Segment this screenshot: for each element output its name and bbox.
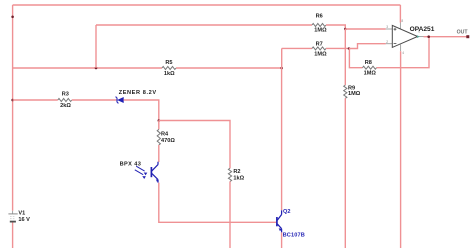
op-amp plus mark xyxy=(394,28,397,31)
wire R8 left lead xyxy=(349,49,362,68)
wire R5 net xyxy=(13,67,162,69)
wire jog to - input xyxy=(349,44,386,49)
op-amp V+ pin stub xyxy=(399,23,401,30)
op-amp - input stub xyxy=(386,43,392,45)
junction dot output/feedback xyxy=(427,35,430,38)
resistor R7 xyxy=(312,47,326,50)
junction dot R5/R7 branch xyxy=(280,67,283,70)
resistor R5 xyxy=(162,67,176,70)
node dot on left rail xyxy=(11,15,14,18)
resistor R3 xyxy=(58,99,72,102)
resistor R2 xyxy=(228,168,231,181)
wire R8 right to feedback riser xyxy=(377,37,430,68)
wire R9 riser xyxy=(344,29,346,85)
junction dot inverting node xyxy=(348,47,351,50)
zener diode D1 xyxy=(116,97,124,104)
wire zener to corner xyxy=(124,100,159,121)
op-amp + input stub xyxy=(386,28,392,30)
svg-text:Q2: Q2 xyxy=(283,209,290,215)
op-amp output stub xyxy=(418,36,424,38)
OUT terminal marker xyxy=(466,35,469,38)
phototransistor Q1 BPX43 xyxy=(135,162,159,183)
op-amp minus mark xyxy=(394,43,397,45)
svg-text:8: 8 xyxy=(401,19,403,23)
wire R7 branch riser xyxy=(281,48,283,68)
wire R3 to zener xyxy=(72,99,117,101)
wire R7 net left xyxy=(282,47,312,49)
svg-text:R5: R5 xyxy=(165,60,172,66)
wire R6 net left xyxy=(96,24,312,26)
wire R6 to elbow xyxy=(326,25,345,29)
wire R9 down to edge xyxy=(344,98,346,248)
wire R4 to phototransistor collector xyxy=(158,145,160,162)
wire R6 branch riser xyxy=(95,25,97,68)
transistor Q2 BC107B xyxy=(277,210,282,232)
wire R4 top lead xyxy=(158,121,160,130)
wire zener net left xyxy=(13,99,58,101)
svg-text:R3: R3 xyxy=(62,91,69,97)
resistor R9 xyxy=(344,85,347,98)
svg-text:BPX 43: BPX 43 xyxy=(120,162,142,168)
junction dot R5/R6 branch xyxy=(95,67,98,70)
wire Q2 collector up xyxy=(281,68,283,210)
wire top rail xyxy=(13,4,401,6)
battery V1 positive lead stub xyxy=(12,211,14,214)
op-amp U1 OPA251 triangle xyxy=(392,25,417,47)
svg-text:V1: V1 xyxy=(18,211,25,217)
wire Q2 emitter down to edge xyxy=(281,232,283,248)
wire V+ pin drop xyxy=(399,5,401,23)
svg-text:4: 4 xyxy=(402,51,404,55)
svg-text:OUT: OUT xyxy=(457,29,469,35)
wire left rail upper xyxy=(12,5,14,211)
svg-text:R4: R4 xyxy=(161,132,169,138)
svg-text:2kΩ: 2kΩ xyxy=(60,103,71,109)
svg-text:16 V: 16 V xyxy=(18,217,30,223)
svg-text:1MΩ: 1MΩ xyxy=(348,91,361,97)
svg-text:1kΩ: 1kΩ xyxy=(164,71,175,77)
svg-text:BC107B: BC107B xyxy=(283,232,305,238)
wire emitter down and base run xyxy=(159,183,277,223)
wire to + input xyxy=(345,28,386,30)
wire R7 to inverting node xyxy=(326,47,349,49)
junction dot noninverting node xyxy=(344,28,347,31)
svg-text:R7: R7 xyxy=(316,41,323,47)
output net indicator xyxy=(417,35,420,38)
battery V1 xyxy=(8,214,17,222)
wire left rail lower xyxy=(12,222,14,248)
wire output net xyxy=(424,36,467,38)
svg-text:470Ω: 470Ω xyxy=(161,138,175,144)
wire R2 down to edge xyxy=(229,182,231,248)
svg-text:R8: R8 xyxy=(365,60,372,66)
svg-text:3: 3 xyxy=(386,25,388,29)
svg-text:R6: R6 xyxy=(316,14,323,20)
wire to R2 top xyxy=(159,121,230,169)
resistor R6 xyxy=(312,24,326,27)
node dot left rail / zener net xyxy=(11,99,14,102)
svg-text:OPA251: OPA251 xyxy=(410,26,435,33)
resistor R4 xyxy=(157,129,160,145)
svg-text:1MΩ: 1MΩ xyxy=(314,27,327,33)
svg-text:1kΩ: 1kΩ xyxy=(233,176,244,182)
wire V- pin down to edge xyxy=(400,51,402,248)
svg-text:2: 2 xyxy=(386,40,388,44)
resistor R8 xyxy=(363,66,377,69)
svg-text:R2: R2 xyxy=(233,169,240,175)
junction dot zener node xyxy=(158,119,161,122)
svg-text:ZENER 8.2V: ZENER 8.2V xyxy=(119,90,157,96)
op-amp V- pin stub xyxy=(400,44,402,51)
svg-text:1MΩ: 1MΩ xyxy=(364,71,377,77)
svg-text:1MΩ: 1MΩ xyxy=(314,52,327,58)
